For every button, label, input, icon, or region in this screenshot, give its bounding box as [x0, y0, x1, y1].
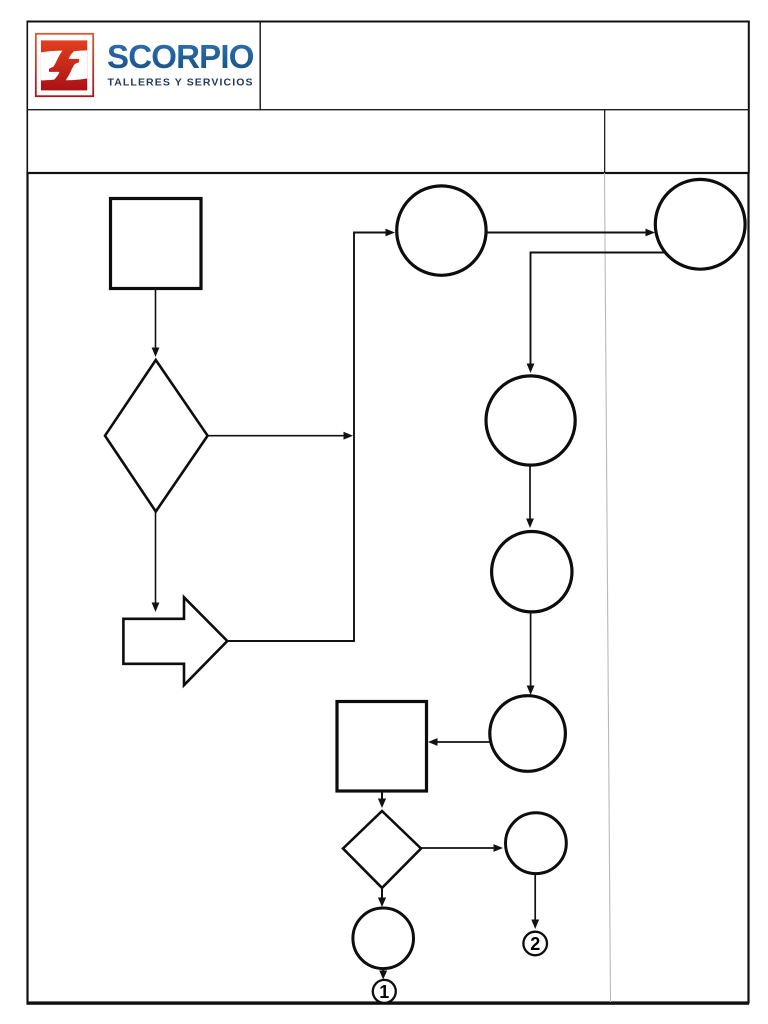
svg-text:2: 2	[530, 934, 540, 954]
arrow C1 to C2	[487, 229, 655, 237]
arrowhead into circle C1	[386, 229, 396, 237]
node 1 connector	[373, 980, 396, 1003]
block arrow	[123, 597, 227, 685]
arrow D1 to block arrow	[152, 512, 160, 613]
logo cell divider	[260, 21, 261, 110]
arrow D2 to C7	[378, 888, 386, 907]
arrow C7 to node 1	[379, 969, 387, 980]
circle C1	[397, 186, 486, 275]
logo icon inner red square	[41, 40, 87, 90]
circle C2	[655, 179, 745, 269]
grey column line	[605, 173, 611, 1002]
svg-text:TALLERES Y SERVICIOS: TALLERES Y SERVICIOS	[108, 77, 254, 89]
arrow D2 to C6	[421, 844, 503, 852]
square S1	[111, 199, 202, 289]
flowchart frame bottom thick	[27, 1002, 750, 1005]
logo icon white swoosh lower-right	[66, 50, 88, 80]
wire D1 right to riser	[208, 432, 353, 440]
circle C6	[506, 813, 567, 874]
diamond D2	[343, 811, 421, 888]
arrow C3 to C4	[526, 465, 534, 528]
header row1 bottom line	[27, 109, 749, 110]
svg-text:1: 1	[379, 982, 389, 1002]
arrow C5 to square S2	[428, 738, 490, 746]
circle C7	[353, 908, 414, 969]
square S2	[337, 702, 427, 792]
arrow C6 to node 2	[531, 874, 539, 929]
wire C2 down to C3	[527, 253, 664, 374]
circle C4	[492, 532, 572, 612]
diamond D1	[105, 360, 208, 512]
header left border	[27, 21, 29, 173]
logo icon outer frame	[36, 34, 93, 96]
circle C3	[486, 376, 575, 465]
node 2 connector	[523, 932, 547, 956]
header row2 divider	[604, 110, 605, 172]
svg-text:SCORPIO: SCORPIO	[107, 38, 254, 75]
arrow C4 to C5	[527, 612, 535, 695]
circle C5	[490, 696, 566, 772]
arrow S2 to D2	[378, 791, 386, 808]
wire block arrow to riser	[227, 233, 387, 642]
arrow S1 to D1	[152, 289, 160, 357]
logo icon white swoosh upper-left	[41, 51, 63, 81]
flowchart frame	[28, 173, 749, 1003]
header right border	[748, 21, 750, 173]
header outer top border	[27, 21, 749, 23]
